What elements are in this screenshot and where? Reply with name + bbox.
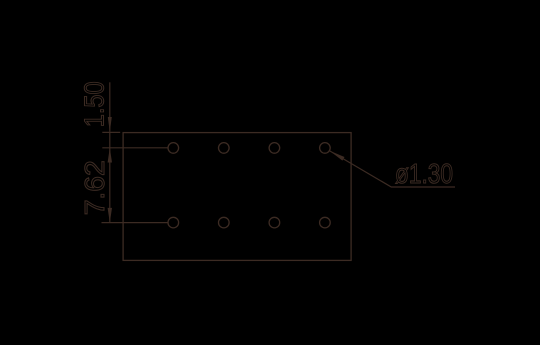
pin hole A2 bbox=[219, 143, 230, 154]
extension line at bottom pin row bbox=[102, 222, 169, 224]
dimension line 1.50 upper segment bbox=[109, 82, 111, 132]
pin hole A1 bbox=[168, 143, 179, 154]
pin hole B1 bbox=[168, 217, 179, 228]
pin hole A4 bbox=[320, 143, 331, 154]
pin hole B4 bbox=[320, 217, 331, 228]
extension line at top pin row bbox=[102, 147, 168, 149]
leader line of hole diameter bbox=[330, 151, 455, 187]
arrowhead down at body top edge bbox=[108, 117, 112, 132]
pin hole B2 bbox=[219, 217, 230, 228]
pin hole A3 bbox=[269, 143, 280, 154]
arrowhead of hole diameter leader bbox=[330, 151, 345, 161]
svg-text:ø1.30: ø1.30 bbox=[395, 158, 453, 189]
dimension line 1.50-7.62 middle segment bbox=[109, 132, 111, 147]
arrowhead up at top pin row bbox=[108, 148, 112, 163]
svg-text:7.62: 7.62 bbox=[79, 160, 110, 215]
svg-text:1.50: 1.50 bbox=[79, 81, 110, 127]
pin hole B3 bbox=[269, 217, 280, 228]
extension line at body top edge bbox=[102, 131, 120, 133]
dimension line 7.62 segment bbox=[109, 148, 111, 223]
arrowhead down at bottom pin row bbox=[108, 208, 112, 223]
body outline rectangle bbox=[123, 133, 351, 261]
